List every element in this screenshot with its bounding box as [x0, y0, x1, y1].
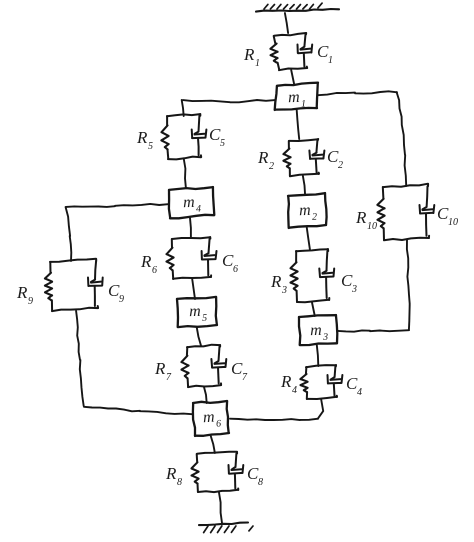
label C3 [341, 271, 357, 295]
svg-text:10: 10 [367, 221, 377, 232]
wire R3C3 to m3 [312, 302, 315, 316]
label C6 [222, 251, 238, 275]
capacitor (dashpot) C4 [328, 366, 343, 395]
svg-text:R: R [270, 272, 282, 291]
wire m1 to R2C2 [297, 110, 300, 139]
label R2 [257, 148, 274, 172]
R7-C7 parallel frame [187, 345, 221, 387]
wire m4 left to R9C9 [66, 204, 168, 261]
label C8 [247, 464, 263, 488]
label C9 [108, 281, 124, 305]
svg-text:R: R [355, 208, 367, 227]
svg-text:6: 6 [233, 264, 238, 275]
svg-text:6: 6 [152, 265, 157, 276]
R9-C9 parallel frame [50, 259, 98, 311]
svg-text:m: m [288, 89, 300, 106]
svg-text:3: 3 [351, 284, 357, 295]
ground (bottom) [199, 523, 253, 533]
svg-text:1: 1 [328, 55, 333, 66]
label R9 [16, 283, 33, 307]
svg-text:1: 1 [301, 99, 306, 110]
svg-text:2: 2 [269, 161, 274, 172]
mass m4 [169, 187, 214, 218]
resistor (spring) R5 [161, 125, 168, 149]
R1-C1 parallel frame [274, 33, 308, 70]
svg-text:m: m [203, 409, 215, 427]
label C1 [317, 42, 333, 66]
wire m2 to R3C3 [307, 227, 310, 250]
wire R7C7 to m6 [204, 387, 207, 403]
svg-text:2: 2 [338, 160, 343, 171]
svg-text:R: R [136, 128, 148, 147]
svg-text:5: 5 [220, 138, 225, 149]
svg-text:R: R [154, 359, 166, 378]
label R5 [136, 128, 153, 152]
wire R8C8 to ground [219, 492, 222, 523]
wire m1 left to R5C5 [182, 100, 275, 116]
mass m1 [275, 83, 318, 110]
mass m2 [288, 193, 327, 228]
capacitor (dashpot) C6 [202, 239, 217, 276]
svg-text:1: 1 [255, 58, 260, 69]
label R3 [270, 272, 287, 296]
wire m1 right to R10C10 [318, 91, 406, 186]
label R10 [355, 208, 377, 232]
svg-text:10: 10 [448, 217, 458, 228]
wire R1C1 to m1 [291, 70, 294, 84]
mass m5 [177, 297, 217, 327]
ground (top ceiling) [256, 3, 339, 12]
label C10 [437, 204, 458, 228]
R8-C8 parallel frame [197, 452, 239, 492]
svg-text:8: 8 [258, 477, 263, 488]
svg-text:R: R [280, 372, 292, 391]
capacitor (dashpot) C5 [192, 116, 207, 156]
wire m4 to R6C6 [189, 218, 192, 238]
resistor (spring) R4 [300, 374, 307, 392]
capacitor (dashpot) C10 [420, 186, 435, 236]
svg-text:3: 3 [281, 285, 287, 296]
svg-text:m: m [189, 303, 201, 320]
label R4 [280, 372, 297, 396]
svg-text:3: 3 [322, 332, 328, 343]
resistor (spring) R9 [45, 273, 52, 300]
label R1 [243, 45, 260, 69]
capacitor (dashpot) C7 [211, 347, 226, 384]
R6-C6 parallel frame [172, 237, 211, 279]
wire ceiling to R1C1 [285, 13, 288, 33]
capacitor (dashpot) C1 [298, 34, 313, 66]
svg-text:4: 4 [292, 385, 297, 396]
svg-text:5: 5 [148, 141, 153, 152]
capacitor (dashpot) C2 [309, 140, 324, 172]
resistor (spring) R2 [283, 149, 290, 169]
resistor (spring) R6 [167, 248, 174, 271]
wire R4C4 to m6 right [230, 399, 323, 420]
mass m3 [299, 315, 337, 345]
wire R9C9 to m6 left [76, 311, 192, 414]
mass m6 [193, 401, 229, 436]
label C2 [327, 147, 343, 171]
label R8 [165, 464, 182, 488]
svg-text:4: 4 [196, 204, 201, 215]
resistor (spring) R3 [291, 262, 298, 291]
capacitor (dashpot) C3 [319, 251, 334, 298]
svg-text:R: R [140, 252, 152, 271]
resistor (spring) R1 [270, 44, 277, 63]
wire R6C6 to m5 [192, 279, 195, 299]
wire R2C2 to m2 [303, 176, 305, 195]
svg-text:m: m [183, 194, 195, 211]
wire m3 to R4C4 [317, 345, 319, 366]
capacitor (dashpot) C8 [229, 454, 244, 489]
R4-C4 parallel frame [306, 365, 337, 399]
R2-C2 parallel frame [289, 139, 319, 176]
svg-text:5: 5 [202, 313, 207, 324]
svg-text:m: m [310, 322, 322, 339]
svg-text:2: 2 [312, 212, 317, 223]
wire m6 to R8C8 [211, 436, 215, 453]
svg-text:9: 9 [28, 296, 33, 307]
svg-text:6: 6 [216, 418, 222, 429]
R10-C10 parallel frame [383, 184, 429, 241]
R5-C5 parallel frame [167, 114, 201, 159]
svg-text:8: 8 [177, 477, 182, 488]
svg-text:9: 9 [119, 294, 124, 305]
resistor (spring) R8 [192, 462, 199, 483]
svg-text:R: R [165, 464, 177, 483]
label R7 [154, 359, 172, 383]
capacitor (dashpot) C9 [88, 261, 103, 306]
wire R10C10 to m3 right [338, 240, 410, 332]
label C5 [209, 125, 225, 149]
resistor (spring) R10 [377, 199, 384, 229]
label R6 [140, 252, 157, 276]
svg-text:4: 4 [357, 387, 362, 398]
wire m5 to R7C7 [197, 327, 201, 346]
svg-text:R: R [243, 45, 255, 64]
svg-text:R: R [257, 148, 269, 167]
label C4 [346, 374, 362, 398]
wire R5C5 to m4 [184, 159, 186, 188]
svg-text:m: m [299, 202, 311, 219]
R3-C3 parallel frame [296, 249, 329, 302]
resistor (spring) R7 [181, 356, 188, 379]
svg-text:R: R [16, 283, 28, 302]
label C7 [231, 359, 248, 383]
